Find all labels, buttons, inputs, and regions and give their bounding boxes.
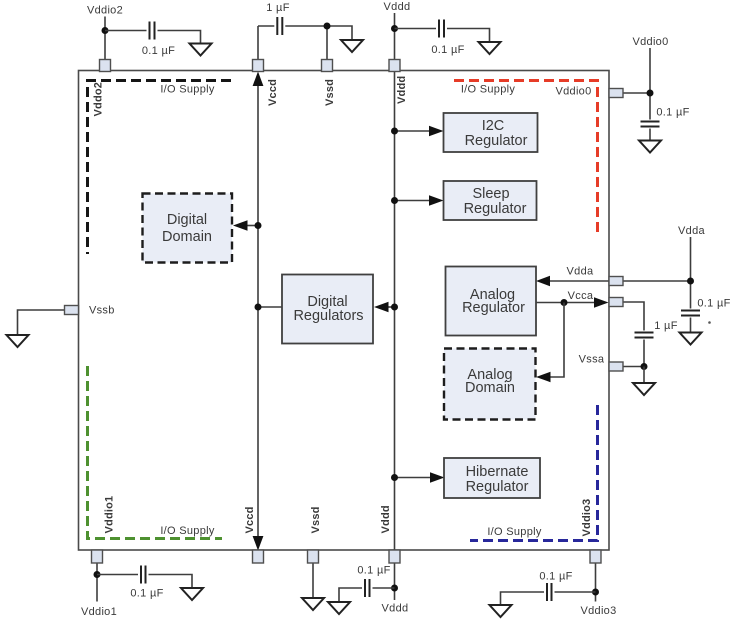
svg-text:Vddd: Vddd xyxy=(384,1,411,13)
wire Vssb pin to ground xyxy=(18,310,65,335)
pin Vcca (right) xyxy=(609,298,623,307)
wire Vccd top pin up xyxy=(257,26,259,60)
svg-text:Vddio3: Vddio3 xyxy=(580,605,616,617)
svg-text:Vssd: Vssd xyxy=(310,506,322,533)
svg-text:Vddio0: Vddio0 xyxy=(632,36,668,48)
svg-text:Regulator: Regulator xyxy=(465,133,528,149)
wire Vdda pin to node xyxy=(623,280,691,282)
wire C9 to ground xyxy=(501,592,545,605)
ground symbol (Vssd bottom) xyxy=(302,598,324,610)
wire Vddio0 pin to node xyxy=(623,92,650,94)
arrowhead into Hibernate Regulator xyxy=(430,472,445,482)
pin Vddio3 (bottom) xyxy=(590,550,601,563)
svg-text:Hibernate: Hibernate xyxy=(466,464,529,480)
junction Vddio3 xyxy=(592,589,599,596)
wire C7 to ground xyxy=(149,575,193,588)
svg-text:0.1 µF: 0.1 µF xyxy=(142,45,175,57)
svg-text:0.1 µF: 0.1 µF xyxy=(697,298,730,310)
wire Vddd to Hibernate Regulator xyxy=(395,477,432,479)
svg-text:Vddio2: Vddio2 xyxy=(87,5,123,17)
svg-text:Regulators: Regulators xyxy=(293,308,363,324)
svg-text:1 µF: 1 µF xyxy=(654,320,677,332)
wire Vddd to capacitor C3 xyxy=(395,28,437,30)
junction on Vddd at I2C branch xyxy=(391,128,398,135)
junction Vdda xyxy=(687,278,694,285)
arrowhead into Analog Domain xyxy=(536,372,551,382)
svg-text:Digital: Digital xyxy=(167,212,207,228)
wire C5 to ground xyxy=(690,318,692,333)
wire Vssd bottom pin to ground xyxy=(312,563,314,598)
wire Vcca from Analog Regulator to pin xyxy=(536,302,595,304)
svg-text:I/O Supply: I/O Supply xyxy=(487,526,542,538)
svg-text:Regulator: Regulator xyxy=(462,300,525,316)
chip outline U1 xyxy=(79,71,610,551)
wire Vddd down to pin xyxy=(394,13,396,60)
svg-text:Vddd: Vddd xyxy=(382,603,409,615)
svg-text:0.1 µF: 0.1 µF xyxy=(539,571,572,583)
junction on Vccd at Digital Regulators output xyxy=(255,304,262,311)
svg-text:0.1 µF: 0.1 µF xyxy=(357,565,390,577)
I/O supply domain dashed boundary (Vddio3, blue, bottom-right) xyxy=(470,405,598,541)
svg-text:Regulator: Regulator xyxy=(466,479,529,495)
capacitor C2 1uF plates xyxy=(277,17,282,35)
arrowhead Vcca into pin xyxy=(594,297,609,307)
wire C3 to ground xyxy=(447,29,490,42)
capacitor C6 1uF plates xyxy=(635,333,654,338)
wire Vddd to I2C Regulator xyxy=(395,130,431,132)
wire Vddio3 to capacitor C9 xyxy=(555,591,596,593)
wire Vddio0 down xyxy=(649,48,651,120)
wire Vddd to Digital Regulators xyxy=(388,306,395,308)
I/O supply domain dashed boundary (Vddio1, green, bottom-left) xyxy=(88,366,223,539)
svg-text:I/O Supply: I/O Supply xyxy=(160,84,215,96)
wire C6 to Vssa node xyxy=(643,340,645,367)
svg-text:Vccd: Vccd xyxy=(267,79,279,106)
block Digital Domain xyxy=(143,194,233,263)
stray period mark near Vdda capacitor xyxy=(708,321,711,324)
svg-text:Vddio3: Vddio3 xyxy=(581,499,593,537)
arrowhead into Analog Regulator xyxy=(536,276,550,286)
block I2C Regulator xyxy=(444,113,538,152)
svg-text:1 µF: 1 µF xyxy=(266,2,289,14)
svg-text:I/O Supply: I/O Supply xyxy=(160,525,215,537)
ground symbol (Vddd top cap) xyxy=(479,42,501,54)
pin Vddd (top) xyxy=(389,60,400,72)
svg-text:Vddo2: Vddo2 xyxy=(93,82,105,117)
wire Vddio2 to capacitor C1 xyxy=(105,30,147,32)
pin Vccd (bottom) xyxy=(253,550,264,563)
capacitor C4 0.1uF plates xyxy=(641,122,660,127)
wire Vdda pin to Analog Regulator xyxy=(549,280,609,282)
wire Vddio1 pin down xyxy=(96,563,98,602)
svg-text:Domain: Domain xyxy=(465,380,515,396)
pin Vccd (top) xyxy=(253,60,264,72)
arrowhead Vccd to bottom pin xyxy=(253,536,264,551)
pin Vssa (right) xyxy=(609,362,623,371)
arrowhead into Digital Domain xyxy=(233,220,248,230)
wire Vccd to capacitor C2 xyxy=(258,25,274,27)
net Vccd internal bus (vertical double-arrow line) xyxy=(253,72,264,551)
arrowhead Vccd to top pin xyxy=(253,72,264,87)
svg-text:Vddd: Vddd xyxy=(396,76,408,104)
ground symbol (Vddio1 cap) xyxy=(181,588,203,600)
svg-text:I/O Supply: I/O Supply xyxy=(461,84,516,96)
ground symbol (Vddio2 cap) xyxy=(190,44,212,56)
ground symbol (Vssd top) xyxy=(341,40,363,52)
arrowhead into Digital Regulators xyxy=(374,302,389,312)
wire Vccd to Digital Domain xyxy=(247,225,258,227)
wire Vssa node to ground xyxy=(643,367,645,383)
svg-text:Sleep: Sleep xyxy=(472,186,509,202)
capacitor C9 0.1uF plates xyxy=(547,583,552,601)
svg-text:Regulator: Regulator xyxy=(464,201,527,217)
capacitor C3 0.1uF plates xyxy=(439,20,444,38)
block Digital Regulators xyxy=(282,275,373,344)
capacitor C1 0.1uF plates xyxy=(150,22,155,40)
svg-text:Domain: Domain xyxy=(162,229,212,245)
wire Vddd to capacitor C8 xyxy=(373,587,395,589)
wire Vddd bottom pin down xyxy=(394,563,396,600)
capacitor C8 0.1uF plates xyxy=(365,579,370,597)
junction on Vddd at Digital Regulators branch xyxy=(391,304,398,311)
pin Vssd (bottom) xyxy=(308,550,319,563)
wire C1 to ground xyxy=(158,31,201,44)
svg-text:Vddio0: Vddio0 xyxy=(555,86,591,98)
junction on Vccd at Digital Domain branch xyxy=(255,222,262,229)
pin Vssb (left) xyxy=(65,306,79,315)
ground symbol (Vddd bottom cap) xyxy=(328,602,350,614)
ground symbol (Vssa) xyxy=(633,383,655,395)
wire Vddio1 to capacitor C7 xyxy=(97,574,138,576)
capacitor C5 0.1uF plates xyxy=(681,311,700,316)
svg-text:Vddio1: Vddio1 xyxy=(104,496,116,534)
wire Vdda down xyxy=(690,237,692,309)
ground symbol (Vssb) xyxy=(7,335,29,347)
wire Vssa pin to node xyxy=(623,366,644,368)
block Analog Domain xyxy=(444,349,536,420)
svg-text:Vccd: Vccd xyxy=(244,506,256,533)
svg-text:Vddio1: Vddio1 xyxy=(81,606,117,618)
svg-text:Vssd: Vssd xyxy=(324,79,336,106)
pin Vddio1 (bottom) xyxy=(92,550,103,563)
pin Vdda (right) xyxy=(609,277,623,286)
block Hibernate Regulator xyxy=(444,458,540,498)
svg-text:Vdda: Vdda xyxy=(567,266,594,278)
wire C4 to ground xyxy=(649,129,651,141)
capacitor C7 0.1uF plates xyxy=(141,566,146,584)
ground symbol (Vddio3 cap) xyxy=(490,605,512,617)
junction on Vddd at Sleep branch xyxy=(391,197,398,204)
wire Vcca pin to capacitor C6 xyxy=(623,302,644,331)
wire C8 to ground xyxy=(339,588,362,602)
wire Vddd to Sleep Regulator xyxy=(395,200,431,202)
svg-text:Vssb: Vssb xyxy=(89,305,115,317)
wire Vssd top pin up xyxy=(326,26,328,60)
svg-text:0.1 µF: 0.1 µF xyxy=(656,107,689,119)
ground symbol (Vdda cap) xyxy=(680,333,702,345)
svg-text:Vdda: Vdda xyxy=(678,225,705,237)
svg-text:0.1 µF: 0.1 µF xyxy=(130,588,163,600)
wire C2 to Vssd node and ground xyxy=(285,26,352,40)
junction Vssd/C2 xyxy=(324,23,331,30)
net Vddd internal bus (vertical line) xyxy=(394,72,396,551)
svg-text:Vssa: Vssa xyxy=(579,354,605,366)
wire Vddio3 pin down xyxy=(595,563,597,602)
junction on Vcca branch xyxy=(561,299,568,306)
svg-text:Vcca: Vcca xyxy=(568,290,594,302)
junction Vddio2 xyxy=(102,27,109,34)
junction on Vddd at Hibernate branch xyxy=(391,474,398,481)
I/O supply domain dashed boundary (Vddio0, red, top-right) xyxy=(454,81,598,235)
junction Vddio1 xyxy=(94,571,101,578)
block Sleep Regulator xyxy=(444,181,537,220)
svg-text:I2C: I2C xyxy=(482,118,505,134)
wire Digital Regulators output to Vccd bus xyxy=(258,306,282,308)
wire Vddio2 down to pin xyxy=(104,17,106,61)
junction Vssa xyxy=(641,363,648,370)
block Analog Regulator xyxy=(446,267,537,336)
pin Vddio2 (top) xyxy=(100,60,111,72)
pin Vddd (bottom) xyxy=(389,550,400,563)
ground symbol (Vddio0 cap) xyxy=(639,141,661,153)
pin Vddio0 (right) xyxy=(609,89,623,98)
arrowhead into I2C Regulator xyxy=(429,126,444,136)
wire Vcca down to Analog Domain xyxy=(550,303,564,378)
arrowhead into Sleep Regulator xyxy=(429,195,444,205)
I/O supply domain dashed boundary (Vddio2, black, top-left) xyxy=(88,81,232,255)
svg-text:0.1 µF: 0.1 µF xyxy=(431,44,464,56)
junction Vddd top xyxy=(391,25,398,32)
pin Vssd (top) xyxy=(322,60,333,72)
svg-text:Vddd: Vddd xyxy=(380,505,392,533)
junction Vddd bottom xyxy=(391,585,398,592)
junction Vddio0 xyxy=(647,90,654,97)
